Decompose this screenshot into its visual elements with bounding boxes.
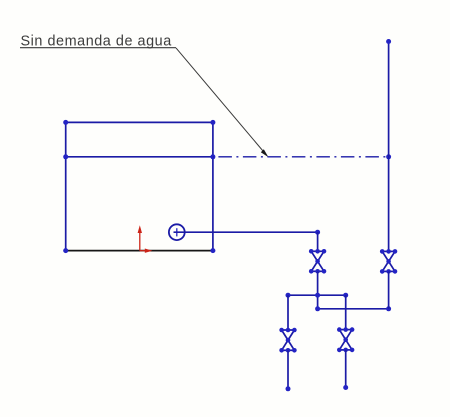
- node C: [386, 306, 391, 311]
- label "Sin demanda de agua": [20, 34, 176, 50]
- node branch right: [343, 293, 348, 298]
- wire node A down to valve V1: [317, 232, 319, 251]
- node tank bottom-right: [210, 248, 215, 253]
- tank bottom edge (black): [66, 250, 213, 252]
- wire valve V1 down to node B: [317, 271, 319, 309]
- pump connection circle: [169, 224, 185, 240]
- tank top edge: [66, 121, 213, 123]
- node tank bottom-left: [63, 248, 68, 253]
- node tank top-left: [63, 120, 68, 125]
- wire lower branch horizontal: [318, 308, 389, 310]
- wire right riser top: [388, 42, 390, 252]
- node centerline right: [386, 154, 391, 159]
- wire middle drop to valve V4: [345, 295, 347, 329]
- node tank top-right: [210, 120, 215, 125]
- node tank mid-left: [63, 154, 68, 159]
- node branch middle: [315, 293, 320, 298]
- valve V2: [380, 249, 397, 274]
- wire left drop to valve V3: [287, 295, 289, 330]
- valve V4: [337, 327, 354, 352]
- node riser top: [386, 39, 391, 44]
- tank left edge: [65, 122, 67, 250]
- valve V3: [279, 328, 296, 353]
- wire valve V3 down to outlet: [287, 350, 289, 389]
- tank right edge: [212, 122, 214, 250]
- node tank mid-right: [210, 154, 215, 159]
- valve V1: [309, 249, 326, 274]
- centerline dash-dot: [213, 156, 389, 158]
- wire upper branch horizontal: [288, 294, 346, 296]
- node B: [315, 306, 320, 311]
- origin axes (red): [138, 225, 153, 253]
- wire valve V2 down to node C: [388, 271, 390, 308]
- wire valve V4 down to outlet: [345, 350, 347, 388]
- wire pump to node A: [174, 231, 318, 233]
- node branch left: [286, 293, 291, 298]
- node A: [315, 230, 320, 235]
- node outlet middle: [343, 385, 348, 390]
- leader line: [176, 48, 269, 157]
- node outlet left: [286, 386, 291, 391]
- tank water-level divider: [66, 156, 213, 158]
